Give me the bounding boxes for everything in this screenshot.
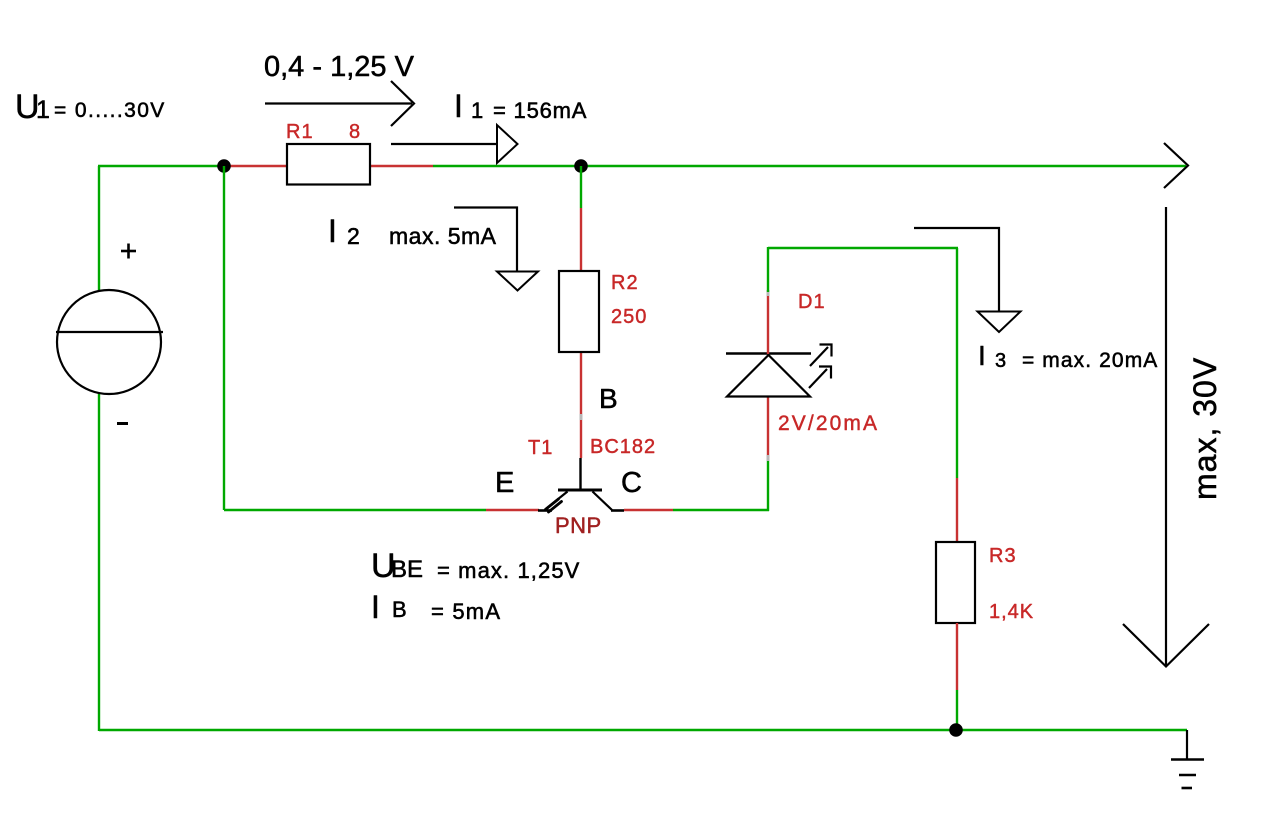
wire: top rail red lead out of R1 bbox=[369, 165, 433, 167]
pin: gray tick above LED bbox=[767, 290, 770, 296]
label: plus sign of source bbox=[121, 244, 136, 259]
arrow: I3 bent arrow with open head bbox=[914, 228, 999, 312]
wire: R2 bottom red lead to base bbox=[580, 352, 582, 458]
wire: emitter branch vertical green bbox=[223, 166, 225, 510]
wire: LED bottom red lead bbox=[767, 397, 769, 459]
svg-text:I: I bbox=[328, 213, 337, 249]
svg-text:BC182: BC182 bbox=[590, 436, 656, 458]
svg-text:= 156mA: = 156mA bbox=[493, 98, 587, 123]
transistor T1 body bar bbox=[558, 489, 602, 492]
wire: R2 top red lead bbox=[580, 208, 582, 272]
svg-text:E: E bbox=[495, 467, 514, 499]
label: minus sign of source bbox=[117, 422, 128, 425]
wire: R2 branch green from junction bbox=[580, 166, 582, 208]
svg-text:I: I bbox=[454, 88, 463, 124]
ground symbol bbox=[1171, 730, 1204, 788]
transistor T1 PNP arrow head bbox=[546, 499, 562, 512]
wire: left vertical green upper bbox=[98, 166, 100, 291]
svg-text:BE: BE bbox=[391, 556, 423, 583]
wire: collector red lead bbox=[624, 509, 673, 511]
svg-text:I: I bbox=[371, 589, 380, 625]
svg-text:max, 30V: max, 30V bbox=[1187, 357, 1223, 500]
svg-text:= max. 20mA: = max. 20mA bbox=[1022, 349, 1158, 372]
diode D1 cathode bar bbox=[726, 352, 811, 355]
arrow: I1 current arrow with open head bbox=[391, 143, 497, 145]
wire: R3 branch vertical green bbox=[956, 248, 958, 478]
transistor T1 collector stub bbox=[611, 509, 624, 512]
svg-text:I: I bbox=[978, 340, 986, 371]
node: junction dot bottom bbox=[949, 723, 963, 737]
wire: LED branch vertical green lower bbox=[767, 459, 769, 511]
arrow: voltage 0,4-1,25V arrow bbox=[265, 102, 412, 104]
svg-text:3: 3 bbox=[995, 350, 1006, 372]
node: junction dot left bbox=[217, 159, 231, 173]
pin: gray tick under LED bbox=[767, 455, 770, 461]
wire: LED top red lead bbox=[767, 292, 769, 354]
transistor T1 base lead black bbox=[579, 458, 581, 490]
pin: gray terminal tick on base lead bbox=[580, 414, 583, 420]
svg-text:max. 5mA: max. 5mA bbox=[389, 223, 497, 249]
svg-text:= 0.....30V: = 0.....30V bbox=[54, 99, 166, 122]
wire: emitter branch horizontal green bbox=[224, 509, 486, 511]
svg-text:R1: R1 bbox=[286, 121, 314, 143]
transistor T1 collector slant bbox=[593, 492, 613, 511]
svg-text:8: 8 bbox=[349, 121, 360, 143]
svg-text:PNP: PNP bbox=[555, 513, 602, 538]
arrowhead: top rail output arrow bbox=[1164, 143, 1188, 188]
wire: R3 bottom red lead bbox=[956, 623, 958, 690]
arrow: I2 bent arrow with open head bbox=[454, 208, 517, 273]
svg-text:B: B bbox=[392, 597, 407, 622]
diode D1 emission arrow 1 bbox=[810, 345, 832, 367]
resistor R2 bbox=[559, 271, 599, 352]
svg-text:2V/20mA: 2V/20mA bbox=[778, 412, 879, 435]
wire: top rail green left segment bbox=[98, 165, 225, 167]
svg-text:= 5mA: = 5mA bbox=[431, 599, 501, 624]
svg-text:0,4 - 1,25 V: 0,4 - 1,25 V bbox=[264, 51, 415, 83]
voltage source chord line bbox=[56, 331, 163, 333]
arrow: max 30V long down arrow bbox=[1165, 207, 1167, 666]
transistor T1 emitter slant bbox=[545, 492, 568, 510]
wire: bottom rail green bbox=[99, 729, 1187, 731]
node: junction dot at R2 branch bbox=[574, 159, 588, 173]
svg-text:= max. 1,25V: = max. 1,25V bbox=[437, 558, 580, 583]
wire: top rail red lead into R1 bbox=[225, 165, 288, 167]
wire: LED top horizontal green bbox=[768, 247, 958, 249]
svg-text:1: 1 bbox=[471, 98, 483, 123]
voltage source U1 circle bbox=[57, 290, 161, 394]
svg-text:T1: T1 bbox=[528, 437, 553, 459]
svg-text:B: B bbox=[599, 383, 618, 414]
transistor T1 emitter stub bbox=[538, 509, 552, 512]
wire: left vertical green lower bbox=[98, 393, 100, 731]
svg-text:250: 250 bbox=[611, 306, 647, 328]
svg-text:2: 2 bbox=[347, 223, 360, 249]
diode D1 emission arrow 2 bbox=[809, 367, 831, 389]
wire: R3 top red lead bbox=[956, 478, 958, 543]
svg-text:C: C bbox=[621, 467, 642, 499]
diode D1 LED triangle bbox=[727, 355, 810, 397]
svg-text:R2: R2 bbox=[611, 272, 639, 294]
wire: emitter red lead bbox=[486, 509, 539, 511]
wire: top rail green long segment to right bbox=[433, 165, 1186, 167]
wire: R3 bottom green lead bbox=[956, 690, 958, 731]
resistor R3 bbox=[936, 542, 975, 623]
svg-text:1,4K: 1,4K bbox=[989, 601, 1034, 623]
wire: LED branch vertical green upper bbox=[767, 247, 769, 292]
svg-text:1: 1 bbox=[36, 96, 50, 124]
svg-text:R3: R3 bbox=[989, 545, 1017, 567]
wire: collector green segment bbox=[673, 509, 769, 511]
resistor R1 bbox=[287, 144, 370, 185]
svg-text:D1: D1 bbox=[798, 291, 826, 313]
